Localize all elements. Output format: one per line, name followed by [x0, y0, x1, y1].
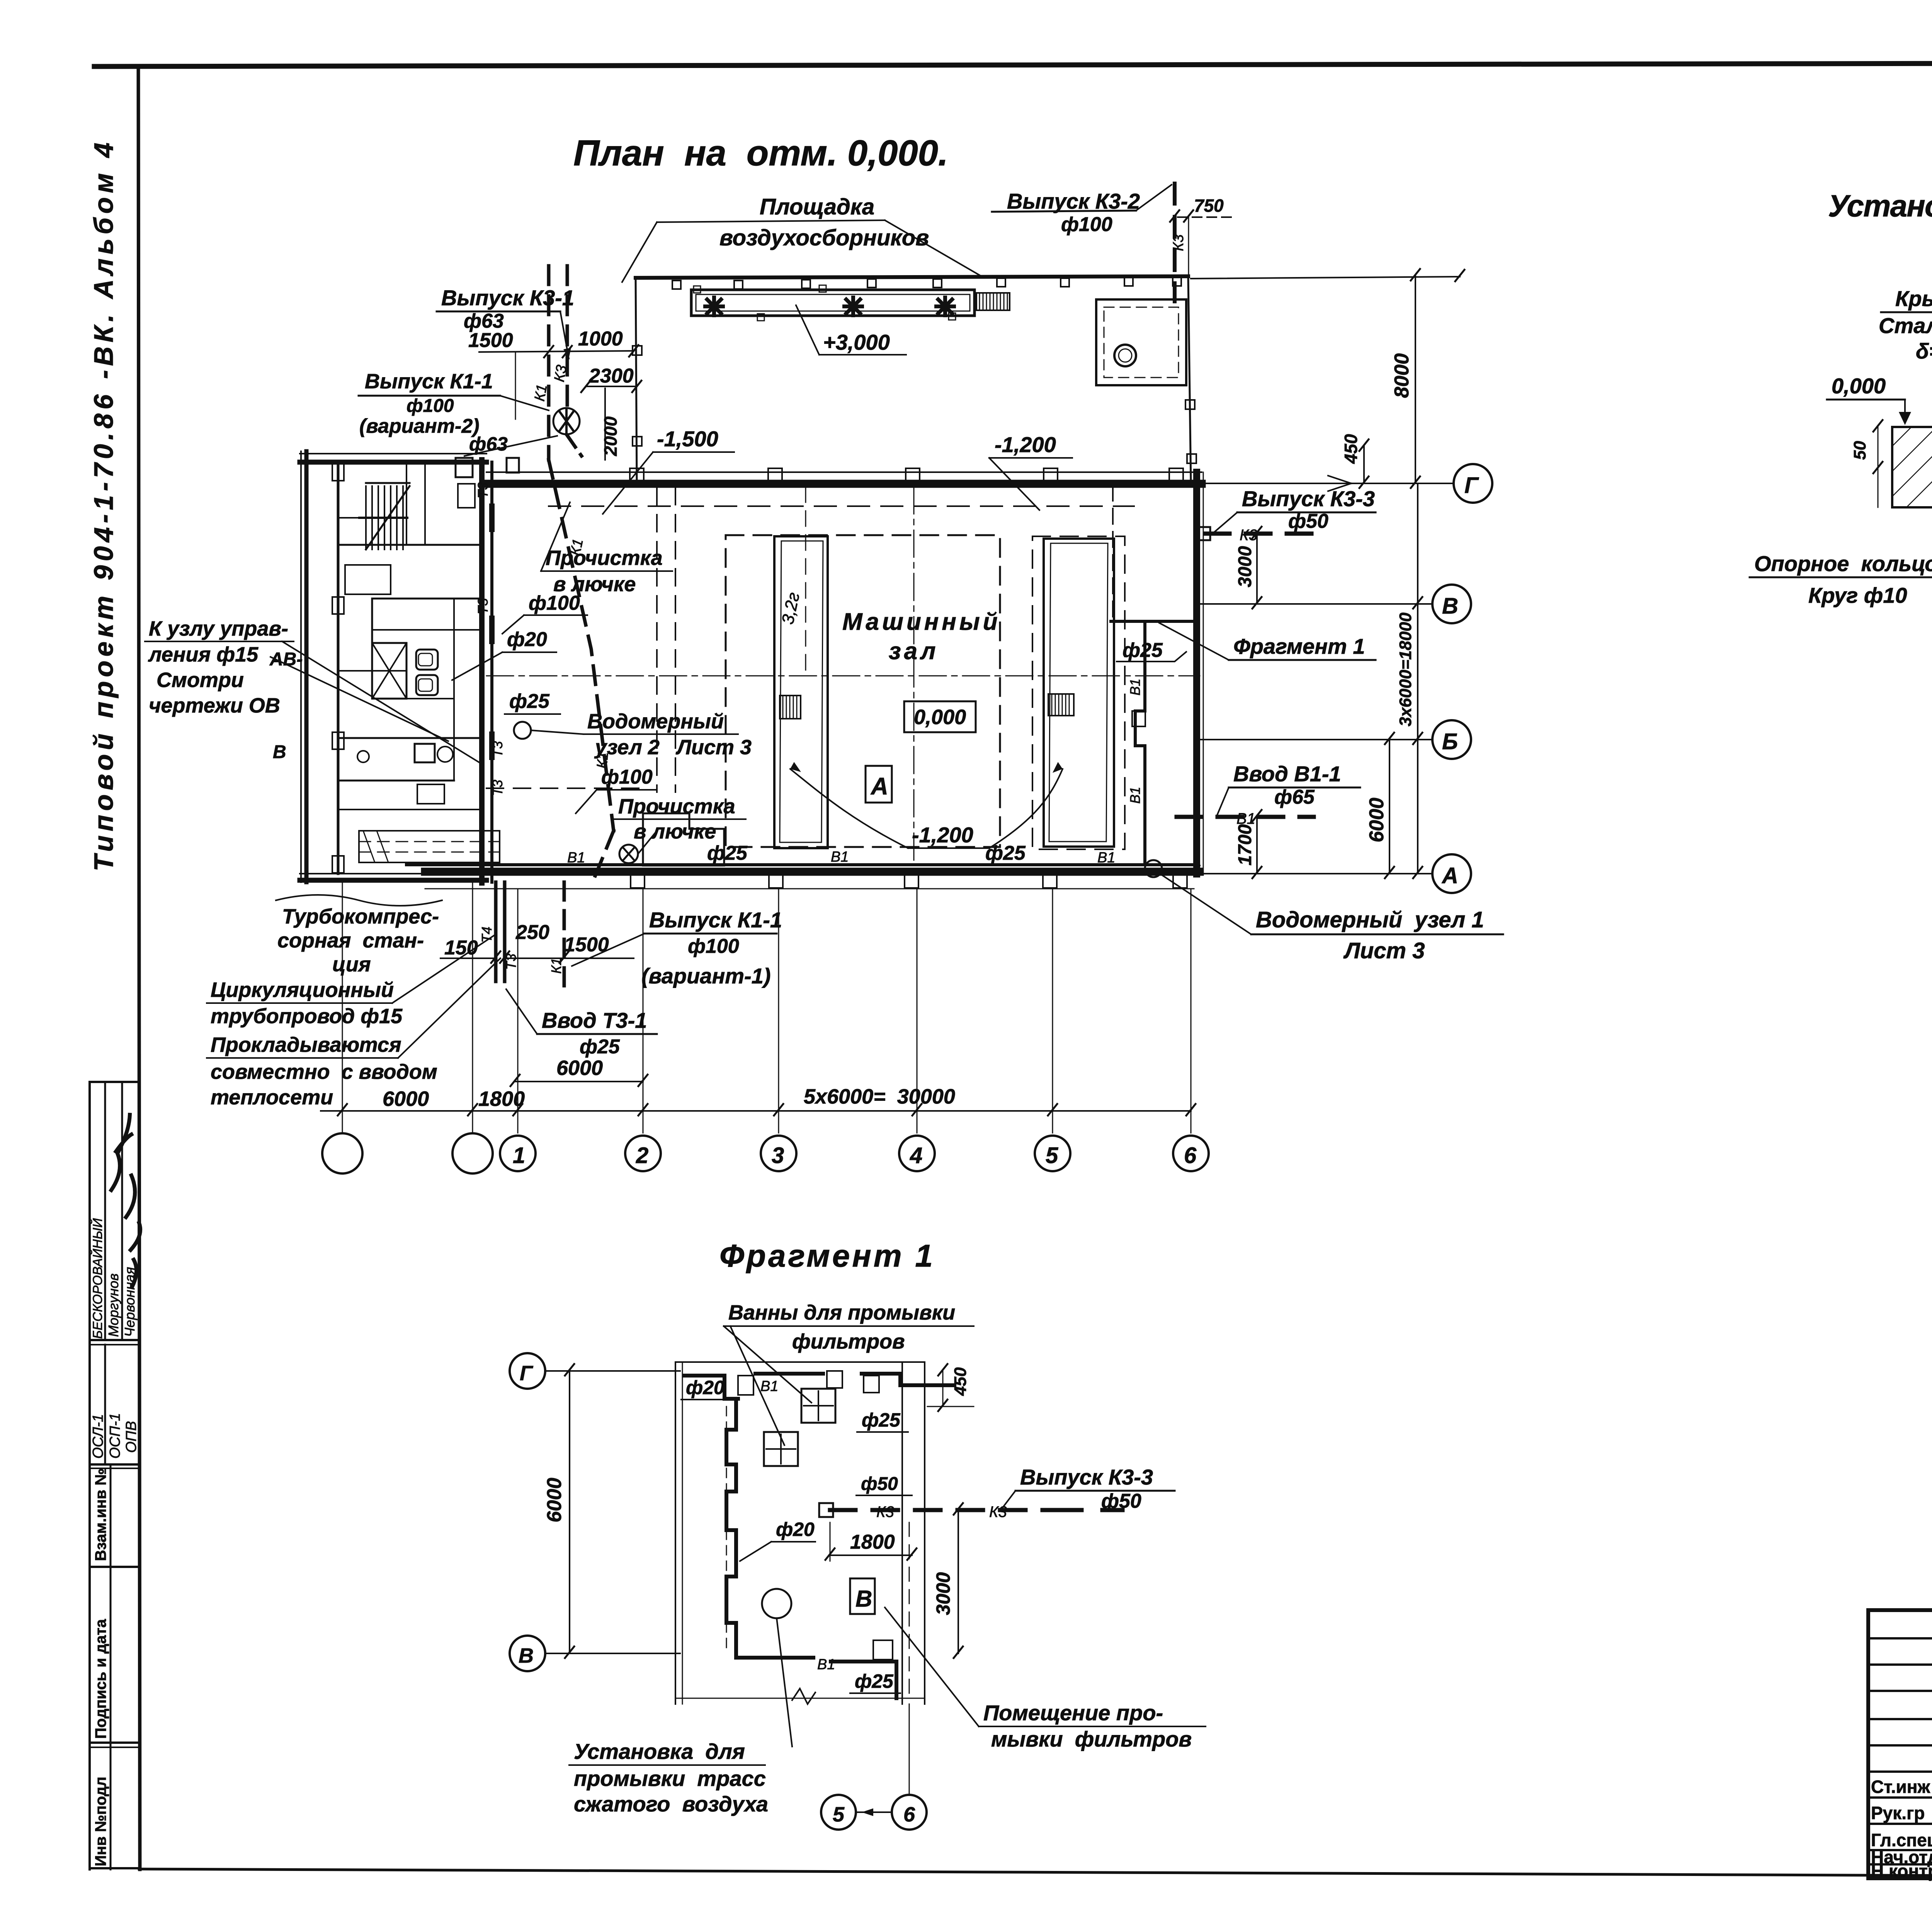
break mark bottom — [792, 1689, 815, 1704]
svg-text:Помещение про-: Помещение про- — [983, 1701, 1163, 1725]
annex inner long wall — [337, 462, 340, 874]
svg-text:К3: К3 — [1170, 234, 1187, 251]
FRAGMENT — [510, 1301, 1206, 1830]
svg-text:Выпуск К1-1: Выпуск К1-1 — [649, 908, 782, 932]
svg-text:Т3: Т3 — [490, 741, 505, 757]
svg-text:Выпуск К3-1: Выпуск К3-1 — [441, 286, 574, 310]
WC cross boxes — [372, 643, 406, 699]
6000 dim vertical — [569, 1371, 570, 1653]
svg-text:Циркуляционный: Циркуляционный — [211, 978, 394, 1002]
svg-text:Типовой проект 904-1-70.86 -ВК: Типовой проект 904-1-70.86 -ВК. Альбом 4 — [88, 141, 119, 871]
bath boxes — [801, 1389, 835, 1423]
svg-text:ф100: ф100 — [1061, 213, 1112, 236]
svg-text:2300: 2300 — [588, 365, 634, 387]
svg-text:промывки трасс: промывки трасс — [574, 1766, 766, 1791]
small squares on strip — [694, 286, 701, 293]
svg-text:мывки фильтров: мывки фильтров — [991, 1727, 1192, 1751]
svg-text:К3: К3 — [876, 1503, 894, 1520]
dim 2000 rotated — [604, 388, 606, 460]
svg-text:3: 3 — [772, 1143, 784, 1168]
svg-text:ф25: ф25 — [509, 690, 550, 713]
floor slab left (hatched) — [1892, 427, 1932, 507]
svg-text:ф20: ф20 — [507, 628, 547, 651]
svg-text:Установка прочистки в лючке: Установка прочистки в лючке — [1828, 189, 1932, 223]
hall inner dashed lines — [549, 505, 1134, 507]
svg-text:450: 450 — [1341, 434, 1361, 464]
axis drop lines — [342, 883, 1191, 1133]
ladder at strip end — [976, 293, 1010, 310]
Т3 riser vertical — [490, 462, 493, 882]
dim 2300 — [586, 386, 637, 387]
svg-text:Т3: Т3 — [475, 598, 491, 614]
annex extra partitions — [424, 462, 426, 545]
svg-text:2: 2 — [636, 1143, 648, 1168]
svg-text:δ=5мм: δ=5мм — [1916, 339, 1932, 363]
top thick pipe run — [684, 1376, 738, 1399]
pipes below building Т4 Т3 К1 — [494, 882, 498, 981]
svg-text:Подпись и дата: Подпись и дата — [92, 1619, 109, 1739]
svg-text:В1: В1 — [760, 1378, 778, 1395]
PLAN — [145, 184, 1503, 1173]
svg-text:фильтров: фильтров — [792, 1330, 905, 1353]
svg-text:ф20: ф20 — [776, 1519, 815, 1540]
svg-text:5: 5 — [1046, 1143, 1058, 1168]
svg-text:ф20: ф20 — [686, 1377, 724, 1398]
svg-text:Г: Г — [1464, 473, 1479, 498]
svg-text:В: В — [273, 742, 286, 762]
svg-text:Выпуск К3-3: Выпуск К3-3 — [1020, 1465, 1153, 1489]
svg-text:Крышка: Крышка — [1895, 286, 1932, 311]
svg-text:Ст.инж: Ст.инж — [1871, 1777, 1930, 1797]
svg-text:ОПВ: ОПВ — [123, 1421, 139, 1453]
svg-text:(вариант-1): (вариант-1) — [641, 964, 771, 988]
annex partitions — [338, 544, 482, 546]
svg-text:6: 6 — [1184, 1143, 1197, 1168]
svg-text:воздухосборников: воздухосборников — [719, 225, 929, 250]
svg-text:А: А — [870, 773, 888, 800]
svg-text:Инв №подл: Инв №подл — [92, 1777, 109, 1866]
svg-text:трубопровод ф15: трубопровод ф15 — [211, 1005, 403, 1028]
platform top edge wall — [636, 276, 1188, 278]
dim 1500/1000 over risers — [479, 351, 634, 352]
svg-text:Т3: Т3 — [475, 482, 491, 498]
svg-text:зал: зал — [889, 638, 939, 665]
svg-text:0,000: 0,000 — [914, 706, 966, 729]
svg-text:ф25: ф25 — [985, 842, 1026, 864]
svg-text:ф100: ф100 — [529, 592, 580, 614]
svg-text:150: 150 — [444, 937, 478, 959]
svg-text:Площадка: Площадка — [760, 194, 874, 219]
svg-text:1: 1 — [513, 1143, 525, 1168]
axis 5 and 6 circles — [821, 1795, 856, 1830]
svg-text:Б: Б — [1442, 729, 1458, 754]
svg-text:Рук.гр: Рук.гр — [1871, 1803, 1925, 1823]
svg-text:сорная стан-: сорная стан- — [277, 929, 424, 952]
svg-text:В1: В1 — [831, 849, 849, 865]
annex right wall / hall left wall — [479, 460, 485, 883]
svg-text:Смотри: Смотри — [156, 668, 244, 692]
svg-text:ция: ция — [332, 953, 371, 976]
svg-text:ф50: ф50 — [1288, 510, 1328, 532]
right foundation dashed box — [1032, 536, 1125, 849]
svg-text:6000: 6000 — [383, 1087, 429, 1111]
platform fence posts — [672, 277, 1181, 289]
svg-text:К узлу управ-: К узлу управ- — [149, 617, 288, 640]
svg-text:чертежи ОВ: чертежи ОВ — [149, 694, 280, 717]
svg-text:В1: В1 — [1097, 850, 1115, 866]
1700 dim — [1256, 817, 1258, 874]
svg-text:Прокладываются: Прокладываются — [211, 1033, 401, 1056]
svg-text:К3: К3 — [551, 364, 570, 383]
second section — [104, 1345, 106, 1464]
svg-text:2000: 2000 — [600, 416, 621, 456]
svg-text:БЕСКОРОВАЙНЫЙ: БЕСКОРОВАЙНЫЙ — [90, 1218, 105, 1339]
svg-text:В1: В1 — [817, 1656, 835, 1673]
TITLES — [573, 133, 1932, 1274]
air collector strip — [691, 290, 975, 316]
svg-text:250: 250 — [515, 921, 549, 944]
svg-text:Прочистка: Прочистка — [546, 546, 663, 570]
svg-text:50: 50 — [1850, 441, 1869, 460]
svg-text:Т3: Т3 — [490, 780, 505, 796]
axis Г — [510, 1353, 545, 1389]
В1 pipe along bottom wall — [406, 863, 1194, 866]
svg-text:ф100: ф100 — [601, 766, 653, 788]
svg-text:Ввод Т3-1: Ввод Т3-1 — [542, 1008, 647, 1032]
dim 50 vertical left — [1878, 427, 1879, 507]
stairs — [359, 483, 410, 549]
svg-text:ф50: ф50 — [1101, 1490, 1141, 1512]
svg-text:ф25: ф25 — [855, 1670, 894, 1692]
left border — [138, 66, 140, 1869]
sink room fixtures — [415, 744, 435, 762]
svg-text:6000: 6000 — [543, 1478, 566, 1522]
svg-text:4: 4 — [910, 1143, 922, 1168]
right side axis lines — [1206, 483, 1453, 484]
svg-text:ф63: ф63 — [464, 310, 504, 332]
svg-text:ф25: ф25 — [1122, 639, 1163, 662]
svg-text:450: 450 — [951, 1367, 970, 1396]
svg-text:1800: 1800 — [850, 1531, 895, 1553]
hall right wall (axis 6) — [1193, 472, 1200, 874]
platform left edge — [636, 278, 637, 483]
annex outer walls — [300, 451, 302, 882]
top wall pilasters / door — [456, 458, 473, 477]
svg-text:Ванны для промывки: Ванны для промывки — [728, 1301, 955, 1324]
svg-text:5: 5 — [833, 1803, 845, 1826]
svg-text:ления ф15: ления ф15 — [148, 643, 259, 666]
svg-text:6000: 6000 — [556, 1056, 603, 1080]
svg-text:ф25: ф25 — [862, 1409, 901, 1431]
svg-text:Фрагмент 1: Фрагмент 1 — [719, 1238, 936, 1274]
3000 dim — [1256, 534, 1258, 604]
svg-text:теплосети: теплосети — [211, 1086, 333, 1109]
hall top wall (axis Г) — [486, 471, 1202, 473]
svg-text:ф25: ф25 — [707, 842, 748, 864]
axis В — [510, 1636, 545, 1671]
svg-text:3000: 3000 — [1235, 546, 1255, 587]
В boxed — [850, 1578, 875, 1614]
svg-text:6: 6 — [903, 1803, 915, 1826]
svg-text:3х6000=18000: 3х6000=18000 — [1396, 612, 1415, 726]
svg-text:Выпуск К3-3: Выпуск К3-3 — [1242, 486, 1375, 511]
svg-text:В1: В1 — [1127, 787, 1143, 804]
svg-text:ф100: ф100 — [406, 396, 454, 416]
svg-text:в лючке: в лючке — [634, 820, 716, 843]
left machine foundation — [774, 536, 828, 848]
3000 dim — [957, 1510, 959, 1653]
svg-text:совместно с вводом: совместно с вводом — [211, 1060, 437, 1083]
margin stamp table — [88, 1082, 91, 1869]
svg-text:План на отм. 0,000.: План на отм. 0,000. — [573, 133, 952, 173]
svg-text:Н.контр: Н.контр — [1871, 1861, 1932, 1881]
fragment room left wall — [1112, 485, 1114, 621]
main stamp outer — [1868, 1610, 1932, 1878]
svg-text:ф100: ф100 — [688, 935, 739, 957]
В1 riser right side + fragment room wall — [1111, 620, 1197, 623]
svg-text:ф25: ф25 — [580, 1036, 620, 1058]
top border — [94, 62, 1932, 66]
svg-text:В: В — [519, 1644, 534, 1667]
zigzag pipe left side — [726, 1399, 748, 1658]
svg-text:ф65: ф65 — [1274, 786, 1315, 808]
svg-text:1500: 1500 — [468, 329, 513, 352]
svg-text:-1,200: -1,200 — [912, 823, 973, 847]
svg-text:3000: 3000 — [932, 1572, 954, 1615]
platform right edge — [1188, 276, 1191, 483]
svg-text:Моргунов: Моргунов — [105, 1274, 121, 1337]
svg-text:1700: 1700 — [1235, 824, 1255, 866]
room outline — [675, 1361, 925, 1363]
pit under floor (hatched trapezoid) — [1892, 507, 1932, 548]
svg-text:Прочистка: Прочистка — [618, 795, 735, 818]
svg-text:5х6000= 30000: 5х6000= 30000 — [804, 1085, 955, 1108]
bottom dimension line and axis circles — [321, 1110, 1191, 1112]
svg-text:А: А — [1441, 863, 1458, 888]
svg-text:Опорное кольцо: Опорное кольцо — [1754, 551, 1932, 576]
square tank with circle — [1096, 299, 1186, 385]
svg-text:Сталь листовая: Сталь листовая — [1879, 313, 1932, 338]
svg-text:ОСП-1: ОСП-1 — [107, 1413, 123, 1459]
К3 dashed line — [830, 1508, 1051, 1512]
right vertical dim lines — [1415, 276, 1416, 483]
TITLEBLOCK — [1868, 1477, 1932, 1882]
svg-text:Ввод В1-1: Ввод В1-1 — [1233, 762, 1341, 786]
thin extension line top right — [1191, 277, 1460, 279]
svg-text:К1: К1 — [532, 383, 551, 402]
450 dim — [942, 1371, 944, 1406]
svg-text:8000: 8000 — [1391, 353, 1413, 398]
svg-text:-1,200: -1,200 — [995, 432, 1056, 457]
bottom pipe run — [748, 1656, 813, 1660]
svg-text:Выпуск К3-2: Выпуск К3-2 — [1007, 189, 1140, 213]
svg-text:Лист 3: Лист 3 — [1343, 938, 1425, 963]
svg-text:Машинный: Машинный — [842, 609, 1001, 635]
circle установка — [762, 1589, 791, 1618]
hall centre dash-dot line — [486, 675, 1200, 677]
svg-text:В1: В1 — [567, 850, 585, 866]
svg-text:Взам.инв №: Взам.инв № — [92, 1468, 109, 1561]
annex extra fixtures — [345, 565, 391, 594]
svg-text:Водомерный узел 1: Водомерный узел 1 — [1256, 907, 1484, 932]
svg-text:(вариант-2): (вариант-2) — [359, 415, 480, 437]
svg-text:В: В — [855, 1586, 872, 1612]
svg-text:Выпуск К1-1: Выпуск К1-1 — [365, 370, 493, 393]
pipe corridor bottom of annex — [359, 831, 500, 862]
svg-text:6000: 6000 — [1366, 798, 1388, 842]
toilets — [416, 650, 438, 670]
svg-text:+3,000: +3,000 — [823, 330, 890, 354]
svg-text:узел 2 Лист 3: узел 2 Лист 3 — [594, 736, 752, 759]
svg-text:ОСЛ-1: ОСЛ-1 — [90, 1414, 106, 1459]
LEFTMARGIN — [88, 141, 140, 1869]
svg-text:0,000: 0,000 — [1832, 374, 1886, 398]
svg-text:Турбокомпрес-: Турбокомпрес- — [282, 905, 439, 928]
svg-text:Фрагмент 1: Фрагмент 1 — [1233, 634, 1365, 658]
top signatures section columns — [104, 1082, 106, 1340]
svg-text:Г: Г — [520, 1362, 534, 1385]
left cluster: risers К1 К3 — [547, 266, 551, 460]
svg-text:-1,500: -1,500 — [657, 427, 718, 451]
svg-text:сжатого воздуха: сжатого воздуха — [574, 1792, 768, 1816]
DETAIL — [1750, 286, 1932, 622]
svg-text:Водомерный: Водомерный — [587, 710, 724, 733]
svg-text:1000: 1000 — [578, 328, 623, 350]
hall bottom wall (axis А) — [486, 865, 1200, 866]
svg-text:750: 750 — [1194, 196, 1224, 216]
svg-text:В1: В1 — [1127, 679, 1143, 696]
hall interior: foundation dashed rect — [726, 535, 1000, 847]
bottom border — [139, 1869, 1932, 1878]
svg-text:В: В — [1442, 594, 1458, 619]
svg-text:ф50: ф50 — [861, 1474, 898, 1494]
right machine foundation — [1044, 539, 1114, 847]
svg-text:Установка для: Установка для — [574, 1739, 745, 1764]
svg-text:Круг ф10: Круг ф10 — [1808, 583, 1907, 607]
